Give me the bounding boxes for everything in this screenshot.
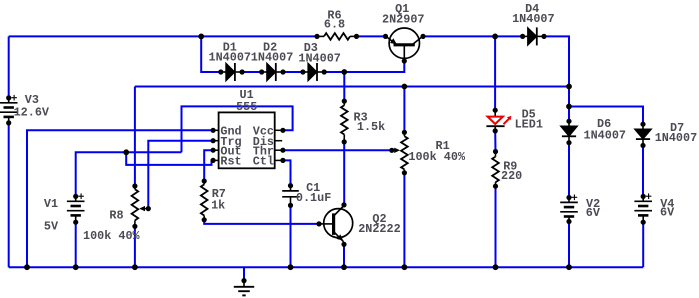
resistor R3: [341, 105, 348, 134]
U1 Gnd pin stub: [213, 129, 219, 131]
wire R6 to Q1 emitter: [357, 35, 386, 37]
wire node A branch to U1 Rst pin: [126, 152, 213, 165]
wire U1 Trg pin to R8 wiper: [148, 141, 213, 209]
battery V2 6V: [560, 195, 578, 223]
diode D1: [221, 63, 242, 81]
svg-text:100k 40%: 100k 40%: [408, 150, 466, 164]
D2 anode pin: [259, 69, 264, 74]
wire ground stub: [243, 267, 245, 280]
junction top rail / diode string: [198, 34, 204, 40]
battery V4 6V: [634, 193, 652, 221]
wire D5 cathode to R9 top: [494, 131, 496, 152]
U1 pin Vcc: [280, 128, 285, 133]
U1 Dis pin stub: [275, 140, 283, 142]
battery V1 5V: [67, 193, 85, 221]
junction ground rail / R8: [132, 264, 138, 270]
U1 pin Trg: [211, 138, 216, 143]
wire C1 bottom to ground rail: [290, 205, 292, 267]
op-amp U1 555 body: [219, 112, 275, 168]
wire R8 bottom to ground rail: [134, 226, 136, 267]
wire D1 cathode to D2 anode: [242, 71, 262, 73]
R1 wiper arrow: [392, 148, 400, 153]
svg-text:LED1: LED1: [515, 117, 543, 131]
wire right junction down to D6: [568, 87, 570, 122]
wire Q2 emitter to ground rail: [343, 244, 345, 267]
D3 cathode pin: [322, 69, 327, 74]
V3 negative pin: [6, 120, 11, 125]
wire R9 bottom lead: [495, 182, 497, 186]
V2 positive pin: [566, 195, 571, 200]
svg-text:2N2222: 2N2222: [358, 222, 400, 236]
svg-text:555: 555: [236, 100, 257, 114]
diode D2: [262, 63, 283, 81]
wire U1 Out pin to R7 top: [204, 150, 213, 181]
C1 pin 1: [288, 183, 293, 188]
wire node A up and over U1 to Vcc pin: [182, 106, 293, 152]
wire V3 positive to top rail: [8, 36, 10, 98]
svg-text:1N4007: 1N4007: [209, 51, 251, 65]
junction D6 / D7 branch: [566, 104, 572, 110]
wire V3 negative to ground rail: [8, 123, 10, 267]
R8 wiper arrow: [139, 206, 148, 211]
wire R8 top lead: [134, 186, 136, 189]
wire R8 bottom lead: [134, 220, 136, 226]
diode D7: [634, 124, 651, 145]
wire bottom ground rail: [9, 266, 644, 268]
svg-text:5V: 5V: [44, 219, 59, 233]
junction ground rail / R9: [493, 264, 499, 270]
wire diode string junction down to R3: [343, 72, 345, 101]
wire D4 cathode to right corner: [544, 36, 569, 86]
svg-text:220: 220: [501, 169, 522, 183]
junction ground rail / R1: [402, 264, 408, 270]
C1 pin 2: [288, 203, 293, 208]
wire mid rail down to R8 top: [134, 87, 136, 187]
V3 positive pin: [6, 95, 11, 100]
U1 pin Ctl: [280, 158, 285, 163]
R3 pin 1: [342, 99, 347, 104]
junction diode string / R3: [341, 69, 347, 75]
svg-text:Rst: Rst: [220, 155, 241, 169]
R6 pin 2: [354, 34, 359, 39]
D4 cathode pin: [541, 34, 546, 39]
junction ground rail / Gnd wire: [24, 264, 30, 270]
wire R1 bottom lead: [403, 169, 405, 172]
R8 wiper pin: [146, 206, 151, 211]
D5 anode pin: [493, 108, 498, 113]
svg-text:6V: 6V: [586, 206, 601, 220]
U1 Ctl pin stub: [275, 159, 283, 161]
svg-text:0.1uF: 0.1uF: [296, 191, 331, 205]
V1 negative pin: [73, 220, 78, 225]
V4 positive pin: [641, 194, 646, 199]
R7 pin 2: [202, 217, 207, 222]
wire R3 bottom to Q2 collector: [343, 142, 345, 205]
wire V1 negative to ground rail: [75, 222, 77, 267]
D6 cathode pin: [566, 140, 571, 145]
svg-text:6.8: 6.8: [324, 18, 345, 32]
resistor R8 potentiometer: [132, 189, 139, 220]
Q1 collector pin: [420, 34, 425, 39]
wire top rail down to diode string: [201, 36, 221, 72]
V1 positive pin: [73, 194, 78, 199]
junction top rail / LED branch: [492, 34, 498, 40]
wire R1 bottom to ground rail: [403, 173, 405, 267]
wire branch over to D7: [569, 107, 643, 125]
resistor R6: [324, 33, 350, 40]
battery V3 12.6V: [0, 95, 18, 123]
wire U1 Thr pin to R1 wiper: [283, 149, 392, 151]
R8 pin 2: [132, 224, 137, 229]
U1 pin Thr: [280, 148, 285, 153]
wire D6 cathode to V2 positive: [568, 143, 570, 198]
D7 cathode pin: [640, 143, 645, 148]
diode D6: [560, 121, 577, 143]
D1 anode pin: [218, 69, 223, 74]
wire R6 right lead: [350, 35, 357, 37]
wire R3 bottom lead: [343, 135, 345, 142]
wire R3 top lead: [343, 101, 345, 105]
R6 pin 1: [314, 34, 319, 39]
svg-text:100k 40%: 100k 40%: [83, 229, 141, 243]
D1 cathode pin: [240, 69, 245, 74]
D4 anode pin: [520, 34, 525, 39]
Q2 emitter pin: [341, 242, 346, 247]
U1 Rst pin stub: [213, 159, 219, 161]
svg-text:1N4007: 1N4007: [298, 51, 340, 65]
D6 anode pin: [566, 119, 571, 124]
R3 pin 2: [342, 139, 347, 144]
wire V4 negative to ground rail: [642, 222, 644, 267]
U1 pin Gnd: [211, 128, 216, 133]
wire V1 positive to node A: [76, 152, 182, 196]
D7 anode pin: [640, 122, 645, 127]
wire R1 top lead: [403, 132, 405, 136]
R1 pin 1: [402, 130, 407, 135]
svg-text:1N4007: 1N4007: [655, 131, 697, 145]
U1 Thr pin stub: [275, 149, 283, 151]
wire top rail down to LED D5: [494, 36, 496, 110]
junction mid rail / right branch: [566, 84, 572, 90]
D2 cathode pin: [280, 69, 285, 74]
transistor Q1: [386, 28, 424, 61]
wire U1 Ctl pin to C1 top: [283, 160, 291, 185]
wire mid rail down to R1 top: [403, 87, 405, 133]
svg-text:1N4007: 1N4007: [512, 12, 554, 26]
D5 cathode pin: [493, 128, 498, 133]
U1 pin Out: [211, 148, 216, 153]
V2 negative pin: [566, 219, 571, 224]
D3 anode pin: [300, 69, 305, 74]
junction ground rail / V1: [73, 264, 79, 270]
transistor Q2: [319, 206, 353, 242]
Q2 collector pin: [341, 202, 346, 207]
wire ground net to U1 Gnd pin: [27, 130, 213, 267]
junction mid rail / R1: [402, 84, 408, 90]
R9 pin 1: [493, 149, 498, 154]
Q1 base pin: [402, 58, 407, 63]
junction ground rail / C1: [288, 264, 294, 270]
U1 Trg pin stub: [213, 140, 219, 142]
diode D4: [523, 27, 544, 45]
wire mid horizontal rail: [135, 86, 569, 88]
Q2 base pin: [316, 221, 321, 226]
capacitor C1: [282, 186, 299, 206]
R1 wiper pin: [389, 148, 394, 153]
wire top supply rail from V3 to R6: [9, 35, 317, 37]
svg-text:6V: 6V: [660, 206, 675, 220]
Q1 emitter pin: [383, 34, 388, 39]
resistor R7: [201, 184, 208, 215]
junction ground rail / V2: [566, 264, 572, 270]
wire Q1 collector to D4 anode: [423, 35, 523, 37]
V4 negative pin: [641, 220, 646, 225]
wire R7 top lead: [203, 181, 205, 184]
wire V2 negative to ground rail: [568, 222, 570, 268]
R7 pin 1: [202, 178, 207, 183]
U1 Out pin stub: [213, 149, 219, 151]
svg-text:1.5k: 1.5k: [357, 120, 385, 134]
svg-text:1N4007: 1N4007: [251, 51, 293, 65]
wire D3 cathode to Q1 base: [324, 61, 404, 72]
diode D3: [303, 63, 324, 81]
wire D2 cathode to D3 anode: [283, 71, 303, 73]
wire R9 bottom to ground rail: [495, 186, 497, 267]
wire D7 cathode to V4 positive: [642, 146, 644, 197]
svg-text:R8: R8: [109, 209, 123, 223]
svg-text:12.6V: 12.6V: [14, 106, 50, 120]
wire R6 left lead: [317, 35, 324, 37]
wire R9 top lead: [495, 152, 497, 157]
U1 pin Rst: [211, 158, 216, 163]
svg-text:1k: 1k: [211, 198, 225, 212]
wire R7 bottom lead: [203, 216, 205, 220]
junction node A / Rst branch: [123, 149, 129, 155]
ground pin: [241, 278, 246, 283]
LED D5: [486, 110, 511, 131]
resistor R9: [492, 157, 499, 183]
R9 pin 2: [493, 184, 498, 189]
R1 pin 2: [402, 170, 407, 175]
svg-text:2N2907: 2N2907: [382, 13, 424, 27]
wire R7 bottom to Q2 base: [204, 220, 319, 224]
svg-text:Ctl: Ctl: [253, 155, 274, 169]
junction ground rail / Q2 emitter: [341, 264, 347, 270]
svg-text:1N4007: 1N4007: [584, 128, 626, 142]
R8 pin 1: [132, 183, 137, 188]
svg-text:V1: V1: [44, 197, 58, 211]
ground: [234, 281, 254, 296]
U1 Vcc pin stub: [275, 129, 283, 131]
resistor R1 potentiometer: [401, 136, 408, 169]
